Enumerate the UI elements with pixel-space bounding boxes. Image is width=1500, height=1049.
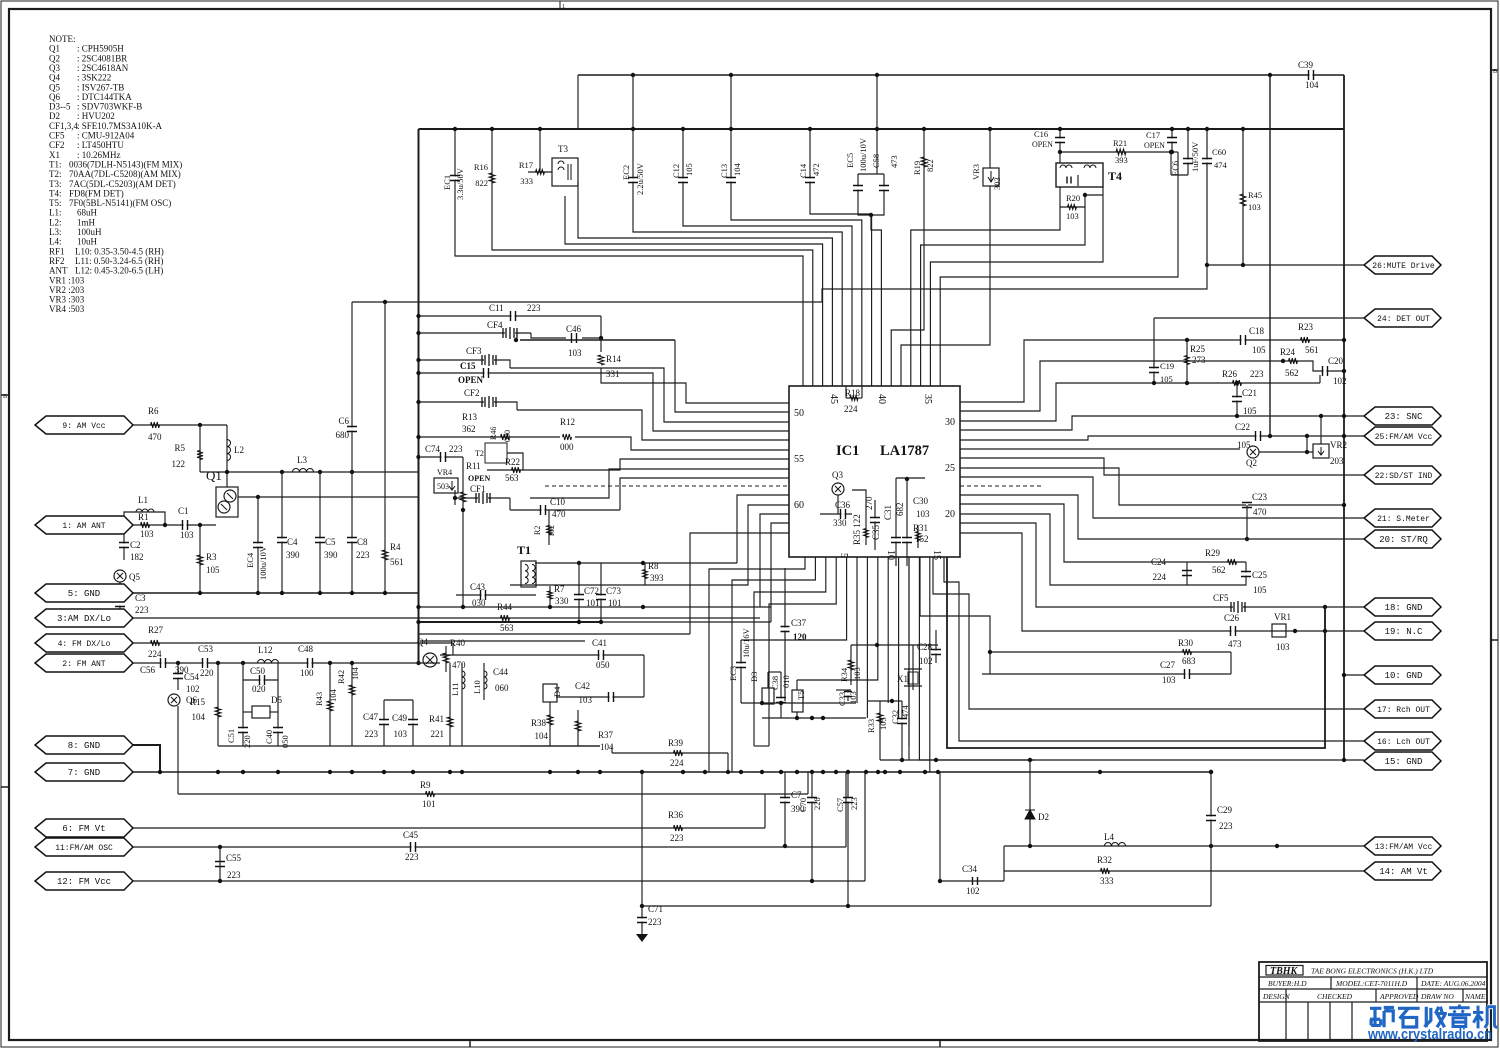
svg-text:C37: C37 <box>791 618 807 628</box>
svg-text:RF2: RF2 <box>49 256 65 266</box>
svg-text:R5: R5 <box>174 443 185 453</box>
svg-text:Q5: Q5 <box>129 572 140 582</box>
svg-text:8: GND: 8: GND <box>68 741 100 751</box>
svg-text:Q3: Q3 <box>832 470 843 480</box>
svg-text:223: 223 <box>449 444 463 454</box>
svg-text:223: 223 <box>849 797 859 810</box>
svg-text:561: 561 <box>390 557 404 567</box>
svg-text:C12: C12 <box>671 164 681 178</box>
svg-text:EC4: EC4 <box>245 552 255 568</box>
svg-text:C39: C39 <box>1298 60 1314 70</box>
svg-text:C18: C18 <box>1249 326 1265 336</box>
svg-text:C34: C34 <box>962 864 978 874</box>
svg-text:LA1787: LA1787 <box>880 443 929 459</box>
svg-text:C57: C57 <box>835 798 845 812</box>
svg-text:224: 224 <box>148 649 162 659</box>
svg-text:CHECKED: CHECKED <box>1317 992 1353 1001</box>
svg-text:L10: 0.35-3.50-4.5 (RH): L10: 0.35-3.50-4.5 (RH) <box>75 246 164 256</box>
svg-text:R45: R45 <box>1248 190 1262 200</box>
svg-text:Q3: Q3 <box>49 63 60 73</box>
svg-text:103: 103 <box>579 695 593 705</box>
svg-text:C47: C47 <box>363 712 379 722</box>
svg-text:105: 105 <box>206 565 220 575</box>
svg-text:000: 000 <box>560 442 574 452</box>
svg-text:TAE BONG ELECTRONICS (H.K.): TAE BONG ELECTRONICS (H.K.) LTD <box>1311 967 1434 976</box>
svg-text:VR3 :303: VR3 :303 <box>49 295 85 305</box>
svg-text:473: 473 <box>1228 639 1242 649</box>
svg-text:35: 35 <box>922 394 933 404</box>
svg-text:223: 223 <box>527 303 541 313</box>
svg-text:223: 223 <box>1219 821 1233 831</box>
svg-text:CF2: CF2 <box>464 388 480 398</box>
svg-text:: LT450HTU: : LT450HTU <box>77 140 124 150</box>
svg-text:473: 473 <box>889 155 899 168</box>
svg-text:R20: R20 <box>1066 193 1080 203</box>
svg-text:223: 223 <box>356 550 370 560</box>
svg-text:6: FM Vt: 6: FM Vt <box>62 824 105 834</box>
svg-text:L11: L11 <box>450 683 460 696</box>
svg-text:C41: C41 <box>592 638 607 648</box>
svg-text:683: 683 <box>1182 656 1196 666</box>
svg-text:R41: R41 <box>429 714 444 724</box>
svg-text:C60: C60 <box>1212 147 1226 157</box>
svg-text:R23: R23 <box>1298 322 1314 332</box>
svg-text:221: 221 <box>431 729 445 739</box>
svg-text:563: 563 <box>505 473 519 483</box>
svg-text:R27: R27 <box>148 625 164 635</box>
svg-text:330: 330 <box>555 596 569 606</box>
svg-text:C19: C19 <box>1160 361 1174 371</box>
svg-text:680: 680 <box>336 430 350 440</box>
svg-text:333: 333 <box>520 176 533 186</box>
svg-text:R30: R30 <box>1178 638 1194 648</box>
svg-text:390: 390 <box>324 550 338 560</box>
svg-text:: CPH5905H: : CPH5905H <box>77 44 124 54</box>
svg-text:T2:: T2: <box>49 169 62 179</box>
svg-text:: SDV703WKF-B: : SDV703WKF-B <box>77 102 142 112</box>
svg-text:C16: C16 <box>1034 129 1048 139</box>
svg-text:1: AM ANT: 1: AM ANT <box>62 522 105 531</box>
svg-text:B: B <box>1493 69 1497 75</box>
svg-text:101: 101 <box>422 799 436 809</box>
svg-text:103: 103 <box>1066 211 1079 221</box>
svg-text:362: 362 <box>462 424 476 434</box>
svg-text:223: 223 <box>227 870 241 880</box>
svg-text:100u/10V: 100u/10V <box>858 137 868 172</box>
svg-text:C22: C22 <box>1235 422 1250 432</box>
svg-text:R34: R34 <box>839 667 849 682</box>
svg-text:: HVU202: : HVU202 <box>77 111 115 121</box>
svg-text:10: 10 <box>885 550 896 560</box>
svg-text:L1:: L1: <box>49 208 62 218</box>
svg-text:R36: R36 <box>668 810 684 820</box>
svg-text:1: 1 <box>562 4 565 10</box>
svg-text:C25: C25 <box>1252 570 1268 580</box>
svg-text:470: 470 <box>1253 507 1267 517</box>
svg-text:330: 330 <box>833 518 847 528</box>
svg-text:C55: C55 <box>226 853 242 863</box>
svg-text:103: 103 <box>394 729 408 739</box>
svg-text:C5: C5 <box>325 537 336 547</box>
svg-text:R16: R16 <box>474 162 488 172</box>
svg-text:R22: R22 <box>505 457 520 467</box>
svg-text:OPEN: OPEN <box>468 474 490 483</box>
svg-text:270: 270 <box>864 496 874 510</box>
svg-text:R31: R31 <box>913 523 928 533</box>
svg-text:503: 503 <box>437 482 449 491</box>
svg-text:70AA(7DL-C5208)(AM MIX): 70AA(7DL-C5208)(AM MIX) <box>69 169 181 179</box>
svg-text:104: 104 <box>1305 80 1319 90</box>
svg-text:Q2: Q2 <box>1246 458 1257 468</box>
svg-text:68uH: 68uH <box>77 208 98 218</box>
svg-text:474: 474 <box>1214 160 1228 170</box>
svg-text:224: 224 <box>1153 572 1167 582</box>
svg-text:C29: C29 <box>1217 805 1233 815</box>
svg-text:R17: R17 <box>519 160 533 170</box>
svg-text:26:MUTE Drive: 26:MUTE Drive <box>1372 262 1435 271</box>
svg-text:C11: C11 <box>489 303 504 313</box>
svg-text:CF5: CF5 <box>1213 593 1229 603</box>
svg-text:VR1 :103: VR1 :103 <box>49 275 85 285</box>
svg-text:CF2: CF2 <box>49 140 65 150</box>
svg-text:333: 333 <box>1100 876 1114 886</box>
svg-text:562: 562 <box>1212 565 1226 575</box>
svg-text:R7: R7 <box>554 584 565 594</box>
svg-text:R24: R24 <box>1280 347 1296 357</box>
svg-text:822: 822 <box>925 159 935 172</box>
svg-text:1uF/50V: 1uF/50V <box>1190 141 1200 172</box>
svg-text:303: 303 <box>992 177 1002 190</box>
svg-text:C17: C17 <box>1146 130 1160 140</box>
svg-text:25: 25 <box>945 463 955 474</box>
svg-text:MODEL:CET-7011H.D: MODEL:CET-7011H.D <box>1335 979 1408 988</box>
svg-text:103: 103 <box>916 509 930 519</box>
svg-text:21: S.Meter: 21: S.Meter <box>1377 515 1430 524</box>
svg-text:17: Rch OUT: 17: Rch OUT <box>1377 706 1430 715</box>
svg-text:R44: R44 <box>497 602 513 612</box>
svg-text:223: 223 <box>135 605 149 615</box>
svg-text:R32: R32 <box>1097 855 1112 865</box>
svg-text:393: 393 <box>1115 155 1128 165</box>
svg-text:15: GND: 15: GND <box>1385 757 1423 767</box>
svg-text:470: 470 <box>452 660 466 670</box>
svg-text:Q4: Q4 <box>417 637 428 647</box>
svg-text:OPEN: OPEN <box>1032 140 1053 149</box>
svg-text:R9: R9 <box>420 780 431 790</box>
svg-text:R12: R12 <box>560 417 575 427</box>
svg-text:C31: C31 <box>883 505 893 520</box>
svg-text:C38: C38 <box>770 676 780 690</box>
svg-text:L12: L12 <box>258 645 273 655</box>
svg-text:R8: R8 <box>648 561 659 571</box>
svg-text:472: 472 <box>811 163 821 176</box>
svg-text:Q2: Q2 <box>49 53 60 63</box>
svg-text:182: 182 <box>130 552 144 562</box>
svg-text:: SFE10.7MS3A10K-A: : SFE10.7MS3A10K-A <box>77 121 163 131</box>
svg-text:11:FM/AM OSC: 11:FM/AM OSC <box>55 844 113 853</box>
svg-text:470: 470 <box>552 509 566 519</box>
svg-text:C49: C49 <box>392 713 408 723</box>
svg-text:12: FM Vcc: 12: FM Vcc <box>57 877 111 887</box>
svg-text:2.2u/50V: 2.2u/50V <box>635 162 645 195</box>
svg-text:563: 563 <box>500 623 514 633</box>
svg-text:T1:: T1: <box>49 159 62 169</box>
svg-text:R46: R46 <box>489 427 498 440</box>
svg-text:R15: R15 <box>190 697 206 707</box>
svg-text:152: 152 <box>915 534 929 544</box>
svg-text:224: 224 <box>844 404 858 414</box>
svg-text:103: 103 <box>1276 642 1290 652</box>
svg-text:C36: C36 <box>835 500 851 510</box>
svg-text:C8: C8 <box>357 537 368 547</box>
svg-text:22:SD/ST IND: 22:SD/ST IND <box>1375 472 1433 481</box>
svg-text:100u/10V: 100u/10V <box>258 545 268 580</box>
svg-text:ANT: ANT <box>49 266 68 276</box>
svg-text:Q5: Q5 <box>49 82 60 92</box>
svg-text:: ISV267-TB: : ISV267-TB <box>77 82 124 92</box>
svg-text:20: 20 <box>945 509 955 520</box>
svg-text:X1: X1 <box>897 674 908 684</box>
svg-text:R40: R40 <box>450 638 466 648</box>
svg-text:R11: R11 <box>466 461 481 471</box>
svg-text:14: AM Vt: 14: AM Vt <box>1379 867 1428 877</box>
svg-text:390: 390 <box>286 550 300 560</box>
svg-text:105: 105 <box>684 163 694 176</box>
svg-text:DATE: AUG.06.2004: DATE: AUG.06.2004 <box>1420 979 1486 988</box>
svg-text:C74: C74 <box>425 444 441 454</box>
svg-text:C27: C27 <box>1160 660 1176 670</box>
svg-text:105: 105 <box>1243 406 1257 416</box>
svg-text:19: N.C: 19: N.C <box>1385 627 1423 637</box>
svg-text:R43: R43 <box>314 692 324 706</box>
svg-text:30: 30 <box>945 417 955 428</box>
svg-text:: 2SC4618AN: : 2SC4618AN <box>77 63 129 73</box>
svg-text:104: 104 <box>328 689 338 703</box>
svg-text:010: 010 <box>781 675 791 688</box>
svg-text:VR2 :203: VR2 :203 <box>49 285 85 295</box>
svg-text:24: DET OUT: 24: DET OUT <box>1377 315 1430 324</box>
svg-text:R19: R19 <box>912 161 922 175</box>
svg-text:R26: R26 <box>1222 369 1238 379</box>
svg-text:C14: C14 <box>798 163 808 178</box>
svg-text:7F0(5BL-N5141)(FM OSC): 7F0(5BL-N5141)(FM OSC) <box>69 198 171 208</box>
svg-text:R1: R1 <box>138 512 149 522</box>
svg-text:C56: C56 <box>140 665 156 675</box>
svg-text:CF1,3,4: CF1,3,4 <box>49 121 79 131</box>
svg-text:TBHK: TBHK <box>1270 966 1299 977</box>
svg-text:R6: R6 <box>148 406 159 416</box>
svg-text:VR4: VR4 <box>437 468 452 477</box>
svg-text:R39: R39 <box>668 738 684 748</box>
svg-text:C46: C46 <box>566 324 582 334</box>
svg-text:R37: R37 <box>598 730 614 740</box>
svg-text:000: 000 <box>503 430 512 442</box>
svg-text:R38: R38 <box>531 718 547 728</box>
svg-text:3.3u/50V: 3.3u/50V <box>455 167 465 200</box>
svg-text:C21: C21 <box>1242 388 1257 398</box>
svg-text:T2: T2 <box>475 449 484 458</box>
svg-text:NOTE:: NOTE: <box>49 34 76 44</box>
svg-text:L2: L2 <box>234 445 244 455</box>
svg-text:50: 50 <box>794 408 804 419</box>
svg-text:C2: C2 <box>130 540 141 550</box>
svg-text:OPEN: OPEN <box>458 375 484 385</box>
svg-text:L4: L4 <box>1104 832 1114 842</box>
svg-text:C54: C54 <box>184 672 200 682</box>
svg-text:9: AM Vcc: 9: AM Vcc <box>62 422 105 431</box>
svg-text:CF5: CF5 <box>49 131 65 141</box>
svg-text:T3: T3 <box>558 144 568 154</box>
svg-text:R21: R21 <box>1113 138 1127 148</box>
svg-text:Q4: Q4 <box>49 73 60 83</box>
svg-text:R3: R3 <box>206 552 217 562</box>
svg-text:NAME: NAME <box>1464 992 1486 1001</box>
svg-text:D5: D5 <box>271 695 282 705</box>
svg-text:102: 102 <box>186 684 200 694</box>
svg-text:D4: D4 <box>552 686 562 697</box>
svg-text:822: 822 <box>475 178 488 188</box>
svg-text:3:AM DX/Lo: 3:AM DX/Lo <box>57 614 111 624</box>
svg-text:C43: C43 <box>470 582 486 592</box>
svg-text:102: 102 <box>966 886 980 896</box>
svg-text:0036(7DLH-N5143)(FM MIX): 0036(7DLH-N5143)(FM MIX) <box>69 159 182 169</box>
svg-text:220: 220 <box>200 668 214 678</box>
svg-text:104: 104 <box>192 712 206 722</box>
svg-text:C50: C50 <box>250 666 266 676</box>
svg-text:105: 105 <box>1252 345 1266 355</box>
svg-text:DESIGN: DESIGN <box>1262 992 1291 1001</box>
svg-text:EC3: EC3 <box>728 666 738 681</box>
svg-text:: 10.26MHz: : 10.26MHz <box>77 150 121 160</box>
svg-text:C45: C45 <box>403 830 419 840</box>
svg-text:682: 682 <box>895 503 905 517</box>
svg-text:VR2: VR2 <box>1330 440 1347 450</box>
svg-text:T5: T5 <box>796 691 806 700</box>
svg-text:45: 45 <box>828 394 839 404</box>
svg-text:CF4: CF4 <box>487 320 503 330</box>
svg-text:23: SNC: 23: SNC <box>1385 412 1423 422</box>
svg-text:C71: C71 <box>648 904 663 914</box>
svg-text:470: 470 <box>148 432 162 442</box>
svg-text:Q1: Q1 <box>49 44 60 54</box>
svg-text:D2: D2 <box>1038 812 1049 822</box>
svg-text:5: 5 <box>838 553 849 558</box>
svg-text:103: 103 <box>568 348 582 358</box>
svg-text:C40: C40 <box>264 730 274 744</box>
svg-text:C73: C73 <box>606 586 622 596</box>
svg-text:5: GND: 5: GND <box>68 589 100 599</box>
svg-text:331: 331 <box>606 369 620 379</box>
svg-text:10u/16V: 10u/16V <box>741 627 751 658</box>
svg-text:L1: L1 <box>138 495 148 505</box>
svg-text:C3: C3 <box>135 593 146 603</box>
svg-text:BUYER:H.D: BUYER:H.D <box>1268 979 1307 988</box>
svg-text:RF1: RF1 <box>49 246 65 256</box>
svg-text:C1: C1 <box>178 506 189 516</box>
svg-text:R33: R33 <box>866 719 876 733</box>
svg-text:273: 273 <box>1192 355 1206 365</box>
svg-text:C32: C32 <box>890 710 900 724</box>
svg-text:L10: L10 <box>472 680 482 694</box>
svg-text:C15: C15 <box>460 361 476 371</box>
svg-text:103: 103 <box>140 529 154 539</box>
svg-text:C51: C51 <box>226 729 236 743</box>
svg-text:C42: C42 <box>575 681 590 691</box>
svg-text:10: GND: 10: GND <box>1385 671 1423 681</box>
svg-text:C70: C70 <box>798 798 808 812</box>
svg-text:R18: R18 <box>845 388 861 398</box>
svg-text:: 2SC4081BR: : 2SC4081BR <box>77 53 127 63</box>
svg-text:T5:: T5: <box>49 198 62 208</box>
svg-text:105: 105 <box>1160 374 1173 384</box>
svg-text:VR3: VR3 <box>971 164 981 180</box>
svg-text:393: 393 <box>650 573 664 583</box>
svg-text:www.crystalradio.cn: www.crystalradio.cn <box>1367 1027 1492 1043</box>
svg-text:C33: C33 <box>837 692 847 706</box>
svg-text:223: 223 <box>648 917 662 927</box>
svg-text:: CMU-912A04: : CMU-912A04 <box>77 131 135 141</box>
svg-text:C26: C26 <box>1224 613 1240 623</box>
svg-text:R4: R4 <box>390 542 401 552</box>
svg-text:C58: C58 <box>871 154 881 168</box>
svg-text:020: 020 <box>252 684 266 694</box>
svg-text:L3: L3 <box>297 455 307 465</box>
svg-text:L12: 0.45-3.20-6.5 (LH): L12: 0.45-3.20-6.5 (LH) <box>75 266 163 276</box>
svg-text:L2:: L2: <box>49 217 62 227</box>
svg-text:223: 223 <box>670 833 684 843</box>
svg-text:55: 55 <box>794 454 804 465</box>
svg-text:R2: R2 <box>533 526 542 535</box>
svg-text:13:FM/AM Vcc: 13:FM/AM Vcc <box>1375 843 1433 852</box>
svg-text:EC5: EC5 <box>845 153 855 168</box>
svg-text:104: 104 <box>732 163 742 177</box>
svg-text:7AC(5DL-C5203)(AM DET): 7AC(5DL-C5203)(AM DET) <box>69 179 176 189</box>
svg-text:: DTC144TKA: : DTC144TKA <box>77 92 132 102</box>
svg-text:C30: C30 <box>913 496 929 506</box>
svg-text:APPROVED: APPROVED <box>1379 992 1419 1001</box>
svg-text:103: 103 <box>1248 202 1261 212</box>
svg-text:EC1: EC1 <box>442 175 452 190</box>
svg-text:T1: T1 <box>517 543 531 557</box>
svg-text:16: Lch OUT: 16: Lch OUT <box>1377 738 1430 747</box>
svg-text:D3: D3 <box>749 672 759 682</box>
svg-text:L4:: L4: <box>49 237 62 247</box>
svg-text:223: 223 <box>1250 369 1264 379</box>
svg-text:T3:: T3: <box>49 179 62 189</box>
svg-text:FD8(FM DET): FD8(FM DET) <box>69 188 124 198</box>
svg-text:122: 122 <box>172 459 186 469</box>
svg-text:R13: R13 <box>462 412 478 422</box>
svg-text:EC2: EC2 <box>621 165 631 180</box>
svg-text:C48: C48 <box>298 644 314 654</box>
svg-text:203: 203 <box>1330 456 1344 466</box>
svg-text:60: 60 <box>794 500 804 511</box>
svg-text:D2: D2 <box>49 111 60 121</box>
svg-text:104: 104 <box>535 731 549 741</box>
svg-text:562: 562 <box>1285 368 1299 378</box>
svg-text:050: 050 <box>596 660 610 670</box>
svg-text:1mH: 1mH <box>77 217 96 227</box>
svg-text:OPEN: OPEN <box>1144 141 1165 150</box>
svg-text:R42: R42 <box>336 670 346 684</box>
svg-text:7: GND: 7: GND <box>68 768 100 778</box>
svg-text:C10: C10 <box>550 497 566 507</box>
svg-text:10uH: 10uH <box>77 237 98 247</box>
svg-text:223: 223 <box>365 729 379 739</box>
svg-text:C6: C6 <box>338 416 349 426</box>
svg-text:103: 103 <box>180 530 194 540</box>
svg-text:C28: C28 <box>917 642 933 652</box>
